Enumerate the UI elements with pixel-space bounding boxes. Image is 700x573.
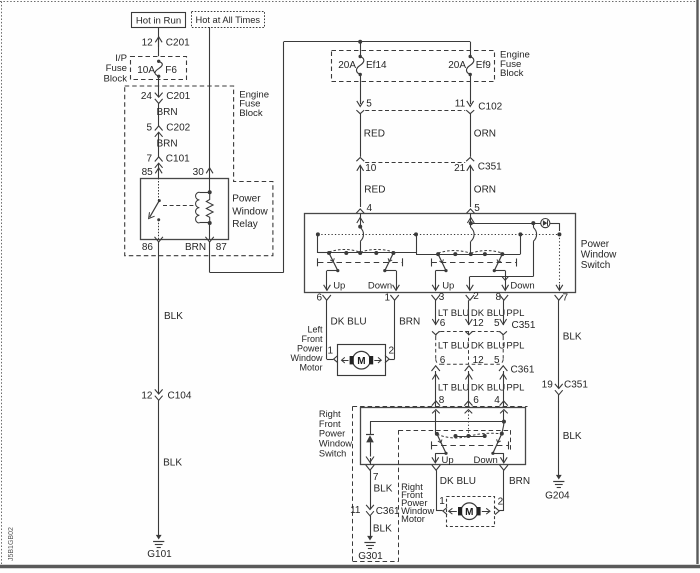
wire pin5 feed bbox=[467, 213, 474, 254]
svg-text:LT BLU: LT BLU bbox=[438, 382, 469, 393]
right rocker profile (dashed) bbox=[438, 251, 502, 254]
motor M1 bbox=[342, 351, 382, 369]
connector C361 pin 11 bbox=[350, 505, 400, 517]
linkage (main switch left rocker, dashed) bbox=[318, 258, 403, 266]
wire DK BLU (pass-through label) bbox=[471, 341, 505, 352]
svg-text:C351: C351 bbox=[478, 162, 502, 173]
svg-text:7: 7 bbox=[563, 292, 569, 303]
connector C361 pin 12 bbox=[465, 355, 484, 371]
Engine Fuse Block (dashed box, relay area) bbox=[125, 86, 273, 256]
svg-text:M: M bbox=[357, 356, 365, 367]
svg-text:Front: Front bbox=[319, 419, 341, 429]
wire bbox=[360, 42, 362, 56]
svg-text:Switch: Switch bbox=[319, 448, 346, 458]
wire pin7 ground path bbox=[556, 234, 563, 290]
ground G301 bbox=[358, 536, 383, 562]
wire PPL (pass-through label) bbox=[506, 341, 524, 352]
right switch rocker arm Up bbox=[435, 432, 448, 455]
svg-text:BLK: BLK bbox=[563, 332, 582, 343]
Power Window Switch label bbox=[581, 239, 617, 271]
wire Up output to pin 3 bbox=[432, 271, 454, 292]
right rocker arm Up bbox=[438, 254, 448, 272]
wire BLK bbox=[559, 300, 582, 388]
svg-text:C201: C201 bbox=[166, 37, 190, 48]
svg-text:4: 4 bbox=[494, 395, 500, 406]
svg-text:5: 5 bbox=[494, 318, 500, 329]
svg-text:PPL: PPL bbox=[506, 382, 524, 393]
svg-text:BRN: BRN bbox=[157, 139, 178, 150]
connector C101 pin 7 bbox=[146, 154, 190, 168]
wire RED bbox=[361, 114, 385, 157]
switch pin 6 bbox=[316, 292, 330, 303]
svg-text:Window: Window bbox=[232, 206, 268, 217]
svg-text:8: 8 bbox=[495, 292, 501, 303]
Left Front Power Window Motor label bbox=[290, 324, 323, 372]
page border bottom (solid bar) bbox=[0, 565, 700, 569]
wire pin4 feed bbox=[357, 213, 364, 253]
right rocker arm Down bbox=[493, 254, 503, 272]
svg-text:PPL: PPL bbox=[506, 308, 524, 319]
I/P Fuse Block label bbox=[104, 53, 128, 85]
wire lamp branch to down contacts bbox=[533, 223, 536, 276]
page border left (dotted) bbox=[1, 2, 3, 565]
svg-text:C351: C351 bbox=[512, 320, 536, 331]
svg-text:12: 12 bbox=[141, 390, 153, 401]
wire BRN bbox=[390, 300, 421, 359]
connector C104 pin 12 bbox=[141, 389, 191, 401]
svg-text:2: 2 bbox=[498, 497, 504, 508]
svg-text:Power: Power bbox=[232, 194, 261, 205]
wire BRN bbox=[157, 104, 178, 126]
Right Front Power Window Motor label bbox=[401, 482, 434, 524]
svg-text:3: 3 bbox=[439, 292, 445, 303]
svg-text:Right: Right bbox=[319, 409, 341, 419]
wire (relay 87 feed to fuses) bbox=[210, 42, 471, 273]
svg-text:RED: RED bbox=[364, 184, 385, 195]
connector C202 pin 5 bbox=[146, 122, 190, 136]
right switch rocker profile (dashed) bbox=[437, 433, 502, 438]
svg-text:BLK: BLK bbox=[563, 431, 582, 442]
Power Window Switch box bbox=[305, 214, 576, 293]
left rocker profile (dashed) bbox=[329, 249, 393, 252]
wire pin6 to center contact bbox=[465, 410, 473, 436]
svg-text:J5B1GB02: J5B1GB02 bbox=[8, 527, 15, 561]
svg-text:BRN: BRN bbox=[509, 476, 530, 487]
wire Down output to pin 1 bbox=[368, 271, 400, 292]
svg-text:BRN: BRN bbox=[157, 107, 178, 118]
svg-text:Power: Power bbox=[297, 344, 323, 354]
wire lamp to pin7 drop bbox=[550, 223, 560, 231]
dashed enclosure (switch/ground) bbox=[353, 406, 528, 561]
svg-text:4: 4 bbox=[367, 203, 373, 214]
down output distribution wire bbox=[467, 276, 535, 291]
harness pass-through (dashed) bbox=[432, 331, 507, 364]
illumination lamp feed wire bbox=[471, 221, 541, 225]
svg-text:C101: C101 bbox=[166, 154, 190, 165]
svg-text:LT BLU: LT BLU bbox=[438, 341, 469, 352]
wire bbox=[360, 76, 362, 102]
svg-text:5: 5 bbox=[146, 122, 152, 133]
left rocker arm Down bbox=[383, 253, 393, 272]
right switch pin 8 bbox=[432, 395, 445, 406]
svg-text:2: 2 bbox=[473, 291, 479, 302]
svg-text:C104: C104 bbox=[168, 390, 192, 401]
wire DK BLU bbox=[327, 300, 367, 359]
svg-text:20A: 20A bbox=[338, 60, 356, 71]
wire bbox=[470, 42, 472, 56]
connector C351 pin 21 bbox=[454, 158, 502, 175]
svg-text:11: 11 bbox=[455, 98, 466, 109]
wire BLK bbox=[559, 395, 582, 477]
fuse Ef9 20A bbox=[448, 55, 491, 76]
wire PPL bbox=[500, 300, 525, 325]
motor M2 bbox=[449, 503, 490, 520]
wire LT BLU bbox=[432, 300, 469, 325]
svg-text:RED: RED bbox=[364, 129, 385, 140]
switch pin 1 bbox=[384, 292, 398, 303]
svg-text:PPL: PPL bbox=[506, 341, 524, 352]
svg-text:Motor: Motor bbox=[401, 514, 425, 524]
Power Window Relay label bbox=[232, 194, 268, 231]
svg-text:Hot in Run: Hot in Run bbox=[136, 16, 181, 27]
svg-text:12: 12 bbox=[142, 37, 154, 48]
switch pin 4 bbox=[356, 203, 372, 214]
svg-text:C102: C102 bbox=[478, 101, 502, 112]
right switch pin 4 bbox=[494, 395, 508, 406]
svg-text:Block: Block bbox=[239, 108, 263, 119]
diode D1 bbox=[366, 422, 374, 465]
wire pin8 to pivot bbox=[432, 410, 440, 434]
svg-text:Up: Up bbox=[333, 281, 345, 292]
connector C201 pin 12 bbox=[142, 37, 191, 49]
svg-text:BRN: BRN bbox=[399, 316, 420, 327]
svg-text:87: 87 bbox=[216, 242, 228, 253]
wire BLK bbox=[371, 470, 393, 509]
svg-text:C201: C201 bbox=[166, 91, 190, 102]
svg-text:6: 6 bbox=[440, 318, 446, 329]
wire BLK bbox=[159, 400, 183, 536]
svg-text:BLK: BLK bbox=[164, 311, 183, 322]
svg-text:F6: F6 bbox=[165, 65, 177, 76]
wire feed to diode branch bbox=[370, 421, 504, 423]
svg-text:19: 19 bbox=[542, 380, 554, 391]
switch pin 2 bbox=[466, 291, 480, 302]
rocker pivot feed (center T) bbox=[393, 234, 438, 254]
svg-text:8: 8 bbox=[439, 395, 445, 406]
svg-text:6: 6 bbox=[316, 292, 322, 303]
wire BLK bbox=[159, 242, 184, 394]
svg-text:6: 6 bbox=[440, 355, 446, 366]
svg-text:2: 2 bbox=[389, 346, 395, 357]
connector C351 pin 10 bbox=[356, 158, 376, 175]
wire BRN bbox=[499, 470, 530, 511]
svg-text:21: 21 bbox=[454, 163, 466, 174]
svg-text:BLK: BLK bbox=[373, 523, 392, 534]
svg-text:I/P: I/P bbox=[115, 53, 127, 64]
left rocker arm Up bbox=[329, 253, 339, 272]
wire DK BLU bbox=[436, 470, 476, 511]
Engine Fuse Block label (fuses) bbox=[500, 50, 530, 80]
wire PPL bbox=[500, 371, 525, 408]
svg-text:DK BLU: DK BLU bbox=[471, 341, 505, 352]
svg-text:ORN: ORN bbox=[474, 129, 496, 140]
power source box "Hot at All Times" bbox=[192, 12, 265, 28]
wire bbox=[158, 28, 160, 57]
svg-text:12: 12 bbox=[473, 318, 485, 329]
relay pin 86 bbox=[142, 237, 163, 253]
svg-text:Window: Window bbox=[319, 439, 352, 449]
wire Up output bbox=[432, 453, 454, 466]
svg-text:Up: Up bbox=[442, 281, 454, 292]
wire BLK bbox=[371, 516, 393, 538]
svg-text:6: 6 bbox=[473, 395, 479, 406]
svg-text:Fuse: Fuse bbox=[106, 63, 127, 74]
right switch pin (BRN) bbox=[500, 465, 508, 470]
svg-text:Down: Down bbox=[368, 281, 392, 292]
switch pin 3 bbox=[432, 292, 445, 303]
svg-text:5: 5 bbox=[366, 98, 372, 109]
wire bbox=[470, 76, 472, 102]
left rocker contact strip bbox=[327, 251, 395, 255]
svg-text:Hot at All Times: Hot at All Times bbox=[196, 15, 261, 25]
wire to relay pin 85 bbox=[142, 163, 163, 178]
svg-text:1: 1 bbox=[384, 292, 390, 303]
svg-text:5: 5 bbox=[474, 203, 480, 214]
relay coil bbox=[196, 178, 214, 239]
svg-text:BLK: BLK bbox=[374, 483, 393, 494]
left rocker pivot feed (left) bbox=[318, 234, 330, 253]
I/P Fuse Block (dashed box) bbox=[131, 57, 187, 80]
connector C102 pin 11 bbox=[455, 98, 503, 113]
svg-text:7: 7 bbox=[146, 154, 152, 165]
connector C351 pin 12 bbox=[473, 318, 485, 329]
motor pin 2 bbox=[385, 346, 395, 363]
svg-text:Left: Left bbox=[307, 324, 323, 334]
svg-text:Relay: Relay bbox=[232, 219, 258, 230]
Right Front Power Window Switch box bbox=[361, 408, 526, 465]
svg-text:1: 1 bbox=[439, 496, 445, 507]
svg-text:DK BLU: DK BLU bbox=[331, 316, 367, 327]
right switch rocker contact strip bbox=[454, 434, 487, 438]
connector C361 pin 6 bbox=[432, 355, 446, 371]
motor pin 1 bbox=[327, 346, 337, 363]
page border top (dotted) bbox=[0, 1, 700, 3]
wire DK BLU bbox=[466, 300, 506, 325]
page border right (solid) bbox=[696, 0, 698, 564]
svg-text:10: 10 bbox=[365, 163, 377, 174]
connector C102 (dashed link) bbox=[365, 110, 465, 112]
rocker linkage (dashed) bbox=[432, 441, 509, 449]
Left Front Power Window Motor box bbox=[338, 345, 386, 376]
ground G204 bbox=[545, 475, 570, 501]
ground G101 bbox=[147, 535, 172, 560]
wire pin4 feed bbox=[500, 410, 508, 434]
linkage (main switch right rocker, dashed) bbox=[431, 259, 516, 267]
wire BRN bbox=[157, 132, 178, 157]
right switch pin 7 bbox=[366, 465, 379, 483]
motor pin 1 bbox=[439, 496, 447, 515]
wire LT BLU bbox=[432, 371, 469, 408]
Engine Fuse Block label (relay area) bbox=[239, 89, 269, 119]
switch pin 8 bbox=[495, 292, 508, 303]
svg-text:10A: 10A bbox=[137, 65, 155, 76]
svg-text:ORN: ORN bbox=[474, 184, 496, 195]
fuse Ef14 20A bbox=[338, 55, 387, 76]
switch pin 7 bbox=[555, 292, 569, 303]
svg-text:BRN: BRN bbox=[185, 242, 206, 253]
svg-text:20A: 20A bbox=[448, 60, 466, 71]
fuse F6 10A bbox=[137, 60, 177, 78]
svg-text:C361: C361 bbox=[511, 365, 535, 376]
svg-text:Up: Up bbox=[442, 455, 454, 466]
wire ORN bbox=[471, 165, 497, 207]
svg-text:5: 5 bbox=[494, 355, 500, 366]
right rocker contact strip bbox=[436, 252, 504, 256]
svg-text:DK BLU: DK BLU bbox=[440, 476, 476, 487]
relay pin 87 BRN label bbox=[185, 237, 227, 253]
svg-text:11: 11 bbox=[350, 505, 361, 516]
svg-text:30: 30 bbox=[193, 167, 205, 178]
svg-text:Power: Power bbox=[319, 429, 345, 439]
sidebar code J5B1GB02 bbox=[8, 527, 15, 561]
svg-text:Ef14: Ef14 bbox=[366, 60, 387, 71]
connector C201 pin 24 bbox=[141, 91, 191, 104]
connector C351 pin 19 bbox=[542, 380, 589, 395]
svg-text:Switch: Switch bbox=[581, 260, 610, 271]
dashed enclosure (motor assembly) bbox=[399, 430, 511, 450]
switch internal bus bbox=[316, 232, 562, 236]
svg-text:Front: Front bbox=[301, 334, 323, 344]
wire RED bbox=[361, 165, 386, 207]
relay box Power Window Relay bbox=[141, 179, 229, 240]
Engine Fuse Block (dashed box, fuses) bbox=[332, 51, 495, 82]
wire ORN bbox=[471, 114, 497, 157]
wire LT BLU (pass-through label) bbox=[438, 341, 469, 352]
svg-text:G301: G301 bbox=[358, 551, 383, 562]
power source box "Hot in Run" bbox=[132, 13, 186, 28]
svg-text:M: M bbox=[465, 507, 473, 518]
Right Front Power Window Motor box bbox=[447, 497, 495, 527]
relay actuator (dashed link) bbox=[163, 205, 195, 207]
switch pin 5 bbox=[466, 203, 480, 214]
svg-text:Block: Block bbox=[104, 74, 128, 85]
wire DK BLU bbox=[466, 371, 506, 408]
svg-text:Ef9: Ef9 bbox=[476, 60, 491, 71]
svg-text:C361: C361 bbox=[376, 506, 400, 517]
connector C361 pin 5 bbox=[494, 355, 535, 376]
svg-text:C202: C202 bbox=[166, 122, 190, 133]
wire Down output bbox=[474, 453, 508, 466]
connector C351 pin 6 bbox=[440, 318, 446, 329]
wire Up output to pin 6 bbox=[324, 271, 346, 292]
svg-text:Down: Down bbox=[474, 455, 498, 466]
svg-text:1: 1 bbox=[327, 346, 333, 357]
svg-text:Down: Down bbox=[510, 281, 534, 292]
svg-text:7: 7 bbox=[373, 472, 379, 483]
svg-text:86: 86 bbox=[142, 242, 154, 253]
wire Down output bbox=[494, 271, 505, 277]
svg-text:24: 24 bbox=[141, 91, 153, 102]
svg-text:12: 12 bbox=[473, 355, 485, 366]
right rocker pivot feed bbox=[502, 234, 520, 254]
right switch pin (DK BLU) bbox=[432, 465, 440, 470]
svg-text:BLK: BLK bbox=[163, 458, 182, 469]
right switch pin 6 bbox=[464, 395, 479, 406]
relay switch contact (pin 85 side) bbox=[149, 178, 161, 239]
connector C102 pin 5 bbox=[356, 98, 372, 113]
wire to relay pin 30 bbox=[193, 27, 213, 178]
Right Front Power Window Switch label bbox=[319, 409, 352, 458]
illumination lamp bbox=[541, 219, 550, 228]
svg-text:G204: G204 bbox=[545, 490, 570, 501]
junction node bbox=[358, 40, 362, 44]
svg-text:G101: G101 bbox=[147, 549, 172, 560]
right switch rocker arm Down bbox=[491, 432, 504, 455]
connector C351 (dashed link) bbox=[365, 162, 465, 164]
svg-text:C351: C351 bbox=[564, 380, 588, 391]
connector C351 pin 5 bbox=[494, 318, 536, 331]
svg-text:Motor: Motor bbox=[299, 363, 322, 373]
svg-text:DK BLU: DK BLU bbox=[471, 382, 505, 393]
wire bbox=[158, 78, 160, 97]
svg-text:Block: Block bbox=[500, 68, 524, 79]
svg-text:Window: Window bbox=[290, 353, 323, 363]
svg-text:85: 85 bbox=[142, 167, 154, 178]
motor pin 2 bbox=[495, 497, 504, 515]
